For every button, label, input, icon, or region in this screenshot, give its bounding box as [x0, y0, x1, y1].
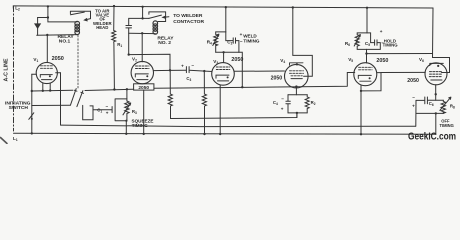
svg-text:SWITCH: SWITCH — [9, 105, 29, 111]
resistor R3 — [125, 101, 129, 121]
svg-text:TIMING: TIMING — [243, 38, 260, 43]
resistor grid R (right) — [203, 70, 205, 72]
wire R3 riser to bus — [126, 89, 128, 101]
wire relay1 lower wire — [37, 34, 77, 37]
svg-text:C4: C4 — [273, 100, 278, 106]
rectifier arm left branch — [37, 18, 39, 25]
wire V5 plate lead — [366, 54, 368, 63]
switch tick on riser — [29, 113, 34, 120]
wire L2 top rail — [13, 6, 433, 8]
resistor grid R (left) — [168, 70, 172, 118]
wire rail A (mid lower bus) — [61, 125, 416, 127]
svg-text:2050: 2050 — [376, 58, 388, 64]
diode rectifier — [35, 24, 40, 28]
wire V5 plate line to V6 drop — [367, 53, 433, 55]
wire L1 bottom rail — [14, 133, 437, 134]
wire V3-V4 grid link — [234, 70, 284, 72]
wire V5 cathode — [360, 86, 362, 91]
relay K2 contact blade — [143, 17, 149, 19]
svg-text:R2: R2 — [311, 100, 316, 106]
wire V3 plate lead — [223, 52, 225, 62]
svg-text:C1: C1 — [97, 107, 102, 113]
hold timing network drop — [366, 8, 368, 33]
tube V3 2050 — [212, 63, 235, 86]
node RELAY NO.2 label — [157, 35, 174, 45]
capacitor C4 / resistor R2 box — [288, 94, 307, 96]
node TO WELDER CONTACTOR label — [173, 13, 204, 25]
node INITIATING SWITCH label — [5, 101, 31, 112]
svg-text:L2: L2 — [15, 6, 20, 12]
wire V1 plate stub right — [56, 72, 61, 74]
wire V4 plate loop — [293, 8, 313, 77]
wire V1 plate drop from rail — [47, 6, 49, 17]
wire line1 grid-return between V3 resistors and V4 cathode net — [171, 113, 297, 119]
wire A-C line dash-dot boundary — [13, 6, 15, 131]
svg-text:A-C LINE: A-C LINE — [4, 58, 10, 81]
capacitor C3 — [170, 70, 212, 71]
wire V6 grid line — [381, 71, 425, 73]
circuit schematic: sequence weld timer with six 2050 thyratrons — [0, 0, 460, 144]
tube V5 2050 — [354, 63, 377, 86]
svg-text:+: + — [412, 104, 415, 109]
wire relay2 drop from rail — [142, 7, 144, 19]
svg-text:C3: C3 — [186, 76, 191, 82]
wire grid bus left segment (switch to V2 base) — [85, 89, 134, 90]
svg-text:C6: C6 — [429, 101, 434, 107]
wire cathode wire y=91 — [32, 89, 73, 92]
relay K1 contact blade — [70, 11, 90, 13]
svg-text:−: − — [106, 104, 109, 109]
svg-text:TIMING: TIMING — [132, 123, 149, 128]
node L2 label — [15, 6, 20, 12]
svg-text:R3: R3 — [132, 109, 137, 115]
svg-text:TIMING: TIMING — [440, 123, 454, 128]
svg-text:R8: R8 — [450, 104, 455, 110]
svg-text:V3: V3 — [213, 59, 218, 65]
node WELD TIMING label — [243, 34, 260, 44]
svg-text:GeekIC.com: GeekIC.com — [408, 131, 456, 142]
svg-text:V6: V6 — [419, 57, 424, 63]
wire V1 right riser to rail A — [60, 73, 62, 125]
capacitor C5 — [367, 33, 374, 43]
capacitor C2 — [226, 32, 233, 41]
svg-text:L1: L1 — [13, 136, 18, 142]
wire relay2 left branch — [129, 18, 143, 25]
svg-text:HEAD: HEAD — [96, 25, 108, 30]
node TO AIR VALVE OF WELDER HEAD label — [93, 9, 113, 30]
node HOLD TIMING label — [383, 39, 399, 48]
wire V4 cathode lead — [295, 87, 297, 95]
svg-text:CONTACTOR: CONTACTOR — [173, 19, 204, 25]
svg-text:R1: R1 — [117, 42, 122, 48]
wire left riser — [31, 74, 33, 133]
node L1 label — [13, 136, 18, 142]
wire weld box bottom — [216, 51, 239, 53]
svg-text:+: + — [380, 29, 383, 34]
relay K2 coil — [153, 21, 158, 34]
wire V2 plate lead — [141, 33, 143, 62]
svg-text:V4: V4 — [280, 58, 285, 64]
node RELAY NO.1 label — [58, 34, 75, 44]
weld timing network drop — [225, 7, 227, 32]
svg-text:2050: 2050 — [407, 78, 419, 84]
capacitor C1 — [93, 109, 112, 111]
wire V3 cathode to L1 — [219, 85, 221, 134]
wire grid bus main segment (V2 base to V5 grid riser) — [154, 73, 355, 89]
wire relay2 bottom wire — [129, 32, 156, 34]
svg-text:+: + — [106, 111, 109, 116]
svg-text:TO WELDER: TO WELDER — [173, 13, 203, 19]
svg-text:−: − — [412, 95, 415, 100]
node top rail junction dots — [47, 5, 368, 9]
wire switch bracket — [83, 105, 93, 119]
wire V2 base lead to L1 — [143, 90, 145, 134]
wire initiating switch feed — [32, 104, 71, 106]
tube V2 base box with 2050 — [134, 84, 154, 90]
svg-text:R4: R4 — [207, 39, 212, 45]
wire V1 grid stub — [32, 73, 37, 75]
wire V5 plate stub — [377, 72, 381, 74]
node A-C LINE label — [4, 58, 10, 81]
wire relay1 coil feed — [48, 18, 77, 22]
svg-text:2050: 2050 — [231, 57, 243, 63]
svg-text:+: + — [281, 107, 284, 112]
wire V1 cathode+heater leads — [43, 83, 50, 91]
capacitor C6 / resistor R8 off timing box — [416, 99, 443, 101]
svg-text:V1: V1 — [33, 57, 38, 63]
svg-text:2050: 2050 — [52, 56, 64, 62]
tube V4 2050 — [285, 64, 309, 88]
wire V2 grid line right — [154, 69, 171, 71]
svg-text:R6: R6 — [345, 41, 350, 47]
svg-text:+: + — [181, 63, 184, 68]
wire V1 plate lead — [46, 35, 48, 62]
tube V2 2050 — [131, 61, 153, 83]
svg-text:2050: 2050 — [271, 76, 283, 82]
tube V1 2050 — [36, 62, 57, 83]
svg-text:V5: V5 — [348, 57, 353, 63]
svg-text:−: − — [191, 63, 194, 68]
wire V3 plate to bus riser — [239, 52, 242, 87]
tube V6 2050 — [425, 63, 447, 85]
node OFF TIMING label — [440, 118, 454, 128]
wire relay1 mechanical linkage (dashed) — [77, 35, 79, 88]
svg-text:C5: C5 — [365, 41, 370, 47]
resistor R1 — [112, 6, 116, 89]
wire V6 plate loop from rail — [433, 8, 450, 73]
svg-text:TIMING: TIMING — [383, 42, 399, 47]
svg-text:NO.1: NO.1 — [59, 39, 71, 45]
resistor R4 — [214, 32, 226, 52]
wire V6 cathode lead — [435, 85, 437, 101]
wire relay1 top-left wire — [38, 17, 48, 19]
svg-text:NO. 2: NO. 2 — [158, 40, 171, 46]
switch S1 blades — [71, 89, 83, 107]
wire R3 stub to L1 — [125, 121, 127, 134]
resistor R6 — [355, 33, 367, 50]
scan artifact bottom-left corner — [1, 138, 8, 144]
relay K1 coil — [75, 21, 80, 34]
capacitor across relay2 — [126, 26, 132, 28]
svg-text:V2: V2 — [132, 57, 137, 63]
svg-text:+: + — [240, 32, 243, 37]
wire coupling to V3 grid line — [129, 54, 170, 70]
resistor R3 squeeze box — [115, 99, 127, 121]
svg-text:−: − — [281, 96, 284, 101]
